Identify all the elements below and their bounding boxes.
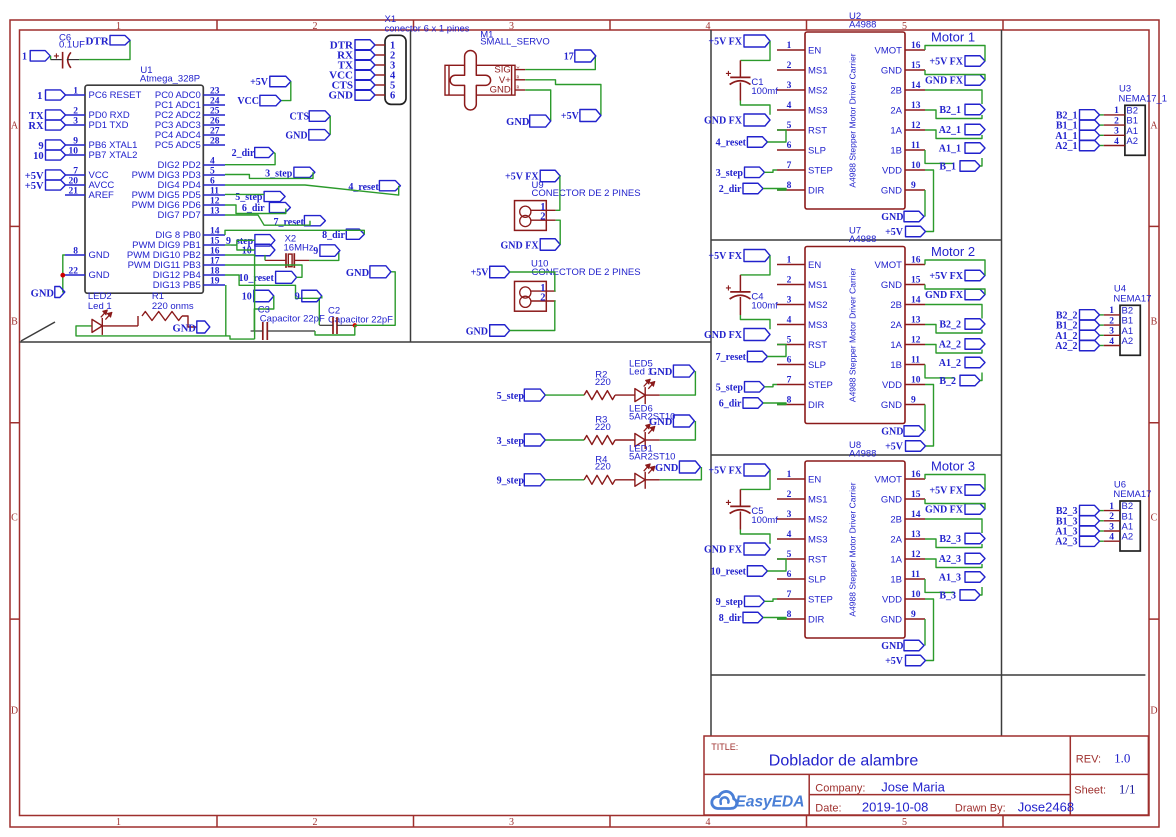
svg-text:4: 4 (787, 101, 792, 111)
svg-text:SLP: SLP (808, 146, 826, 157)
svg-text:13: 13 (210, 207, 220, 217)
svg-text:1.0: 1.0 (1114, 751, 1130, 766)
svg-text:GND FX: GND FX (925, 76, 964, 87)
svg-text:PB7 XTAL2: PB7 XTAL2 (89, 150, 138, 161)
svg-text:R: R (516, 75, 519, 80)
svg-text:GND: GND (881, 495, 902, 506)
svg-text:PC5 ADC5: PC5 ADC5 (155, 140, 201, 151)
svg-text:2: 2 (1114, 116, 1119, 126)
svg-text:DIG13 PB5: DIG13 PB5 (153, 280, 201, 291)
svg-text:4: 4 (787, 316, 792, 326)
svg-text:7: 7 (787, 161, 792, 171)
svg-text:A1_2: A1_2 (939, 358, 961, 369)
svg-text:DIG7 PD7: DIG7 PD7 (158, 210, 201, 221)
svg-text:8: 8 (73, 247, 78, 257)
svg-text:2B: 2B (890, 300, 902, 311)
svg-text:6: 6 (787, 141, 792, 151)
svg-text:14: 14 (210, 227, 220, 237)
svg-text:GND FX: GND FX (925, 505, 964, 516)
svg-text:CONECTOR DE 2 PINES: CONECTOR DE 2 PINES (532, 188, 641, 199)
svg-text:5: 5 (902, 817, 907, 828)
svg-text:22: 22 (69, 267, 79, 277)
svg-text:19: 19 (210, 277, 220, 287)
svg-text:2: 2 (540, 292, 545, 303)
svg-text:2: 2 (787, 276, 792, 286)
svg-text:A2: A2 (1122, 336, 1134, 347)
svg-text:9: 9 (911, 181, 916, 191)
svg-text:EN: EN (808, 46, 821, 57)
svg-text:3: 3 (1114, 127, 1119, 137)
svg-text:GND: GND (490, 85, 511, 96)
svg-text:Jose Maria: Jose Maria (881, 779, 945, 794)
svg-text:3: 3 (1109, 327, 1114, 337)
svg-text:2: 2 (787, 490, 792, 500)
svg-text:2: 2 (540, 212, 545, 223)
svg-text:11: 11 (911, 356, 920, 366)
svg-text:NEMA17: NEMA17 (1113, 489, 1151, 500)
svg-text:1B: 1B (890, 575, 902, 586)
svg-text:+5V: +5V (471, 268, 490, 279)
svg-text:9: 9 (911, 610, 916, 620)
svg-text:B_1: B_1 (939, 162, 956, 173)
svg-text:7: 7 (787, 590, 792, 600)
svg-text:MS1: MS1 (808, 66, 828, 77)
svg-text:2: 2 (73, 107, 78, 117)
svg-text:Capacitor 22pF: Capacitor 22pF (260, 313, 325, 324)
svg-text:MS3: MS3 (808, 106, 828, 117)
svg-text:MS2: MS2 (808, 300, 828, 311)
svg-text:D: D (11, 706, 18, 717)
svg-text:5: 5 (787, 336, 792, 346)
svg-text:+5V FX: +5V FX (505, 172, 539, 183)
svg-text:B_3: B_3 (939, 591, 956, 602)
svg-text:+5V: +5V (885, 442, 904, 453)
svg-text:VCC: VCC (237, 96, 259, 107)
svg-text:8_dir: 8_dir (719, 613, 742, 624)
svg-text:GND: GND (31, 289, 55, 300)
svg-text:10_reset: 10_reset (238, 273, 274, 284)
svg-text:PC6 RESET: PC6 RESET (89, 90, 142, 101)
svg-text:100mf: 100mf (751, 86, 778, 97)
svg-text:+5V: +5V (250, 77, 269, 88)
svg-text:1B: 1B (890, 360, 902, 371)
svg-text:SLP: SLP (808, 360, 826, 371)
svg-text:NEMA17_1: NEMA17_1 (1119, 93, 1168, 104)
svg-text:9: 9 (295, 292, 300, 303)
svg-text:220: 220 (595, 377, 611, 388)
svg-text:GND: GND (329, 90, 354, 102)
svg-text:GND: GND (649, 367, 673, 378)
svg-text:4: 4 (210, 157, 215, 167)
svg-text:Date:: Date: (815, 803, 841, 815)
svg-text:10: 10 (911, 161, 921, 171)
svg-text:27: 27 (210, 127, 220, 137)
svg-text:12: 12 (911, 550, 921, 560)
svg-text:1: 1 (73, 87, 78, 97)
svg-text:220 onms: 220 onms (152, 301, 194, 312)
svg-text:Company:: Company: (815, 782, 865, 794)
svg-text:VMOT: VMOT (875, 46, 903, 57)
svg-text:1/1: 1/1 (1119, 781, 1136, 796)
svg-text:VMOT: VMOT (875, 260, 903, 271)
svg-text:GND FX: GND FX (704, 545, 743, 556)
svg-text:28: 28 (210, 137, 220, 147)
svg-text:1A: 1A (890, 126, 902, 137)
svg-text:1A: 1A (890, 555, 902, 566)
svg-text:AREF: AREF (89, 190, 115, 201)
svg-text:A4988: A4988 (849, 234, 876, 245)
svg-text:VDD: VDD (882, 380, 902, 391)
svg-text:A2_3: A2_3 (1055, 537, 1077, 548)
svg-text:7: 7 (787, 376, 792, 386)
svg-text:4: 4 (706, 21, 711, 32)
svg-text:Motor 1: Motor 1 (931, 30, 975, 45)
svg-text:2: 2 (1109, 512, 1114, 522)
svg-text:NEMA17: NEMA17 (1113, 293, 1151, 304)
svg-text:6_dir: 6_dir (242, 203, 265, 214)
svg-text:VDD: VDD (882, 166, 902, 177)
svg-text:9: 9 (911, 396, 916, 406)
svg-text:3: 3 (787, 510, 792, 520)
svg-text:10: 10 (69, 147, 79, 157)
svg-text:5: 5 (210, 167, 215, 177)
svg-text:B: B (1151, 317, 1158, 328)
svg-text:MS2: MS2 (808, 515, 828, 526)
svg-text:3_step: 3_step (716, 168, 744, 179)
svg-text:MS1: MS1 (808, 280, 828, 291)
svg-text:8: 8 (787, 396, 792, 406)
svg-text:6: 6 (787, 356, 792, 366)
svg-text:3_step: 3_step (265, 168, 293, 179)
svg-text:+5V FX: +5V FX (708, 251, 742, 262)
svg-text:3: 3 (509, 817, 514, 828)
svg-text:GND: GND (881, 615, 902, 626)
svg-text:1: 1 (22, 52, 27, 63)
svg-text:5_step: 5_step (235, 192, 263, 203)
svg-text:SIG: SIG (494, 64, 510, 75)
svg-text:4: 4 (1109, 533, 1114, 543)
svg-text:A2_2: A2_2 (1055, 341, 1077, 352)
svg-text:Doblador de alambre: Doblador de alambre (769, 753, 919, 770)
svg-text:4: 4 (1114, 137, 1119, 147)
svg-text:20: 20 (69, 177, 79, 187)
svg-text:5: 5 (787, 121, 792, 131)
svg-text:16: 16 (911, 256, 921, 266)
svg-text:9: 9 (313, 246, 318, 257)
svg-text:6_dir: 6_dir (719, 399, 742, 410)
svg-text:2: 2 (313, 817, 318, 828)
svg-text:1: 1 (116, 817, 121, 828)
svg-text:GND FX: GND FX (704, 330, 743, 341)
svg-text:8_dir: 8_dir (322, 230, 345, 241)
svg-text:+: + (726, 284, 732, 295)
svg-text:100mf: 100mf (751, 515, 778, 526)
svg-text:14: 14 (911, 81, 921, 91)
svg-text:1: 1 (116, 21, 121, 32)
svg-text:A4988 Stepper Motor Driver Car: A4988 Stepper Motor Driver Carrier (848, 482, 858, 616)
svg-text:STEP: STEP (808, 595, 833, 606)
svg-text:SMALL_SERVO: SMALL_SERVO (480, 36, 550, 47)
svg-text:1: 1 (787, 470, 792, 480)
svg-text:A: A (1150, 121, 1158, 132)
svg-text:10: 10 (33, 151, 44, 162)
svg-text:12: 12 (911, 121, 921, 131)
svg-text:5_step: 5_step (716, 382, 744, 393)
svg-text:3_step: 3_step (497, 436, 525, 447)
svg-text:+5V FX: +5V FX (929, 271, 963, 282)
svg-text:C: C (11, 513, 18, 524)
svg-text:A1_3: A1_3 (939, 573, 961, 584)
svg-text:C: C (1151, 513, 1158, 524)
svg-text:3: 3 (73, 117, 78, 127)
svg-text:VDD: VDD (882, 595, 902, 606)
svg-text:4: 4 (706, 817, 711, 828)
svg-text:13: 13 (911, 530, 921, 540)
svg-text:CTS: CTS (290, 112, 310, 123)
svg-text:23: 23 (210, 87, 220, 97)
svg-text:4_reset: 4_reset (716, 138, 747, 149)
svg-text:3: 3 (787, 296, 792, 306)
svg-text:13: 13 (911, 101, 921, 111)
svg-text:+: + (54, 51, 60, 62)
svg-text:15: 15 (911, 490, 921, 500)
svg-text:DIR: DIR (808, 186, 825, 197)
svg-text:7_reset: 7_reset (274, 217, 305, 228)
svg-text:STEP: STEP (808, 166, 833, 177)
svg-text:REV:: REV: (1076, 754, 1101, 766)
svg-text:7: 7 (73, 167, 78, 177)
svg-text:6: 6 (390, 90, 395, 101)
svg-text:GND: GND (881, 280, 902, 291)
svg-text:5: 5 (902, 21, 907, 32)
svg-text:11: 11 (911, 570, 920, 580)
svg-text:DIR: DIR (808, 400, 825, 411)
svg-text:conector 6 x 1 pines: conector 6 x 1 pines (385, 24, 470, 35)
svg-text:1: 1 (787, 256, 792, 266)
svg-text:26: 26 (210, 117, 220, 127)
svg-text:15: 15 (911, 276, 921, 286)
svg-text:VMOT: VMOT (875, 475, 903, 486)
svg-text:1B: 1B (890, 146, 902, 157)
svg-text:GND FX: GND FX (704, 116, 743, 127)
svg-text:+5V FX: +5V FX (708, 37, 742, 48)
svg-text:GND FX: GND FX (501, 240, 540, 251)
svg-text:6: 6 (210, 177, 215, 187)
svg-text:A: A (11, 121, 19, 132)
svg-text:RST: RST (808, 126, 827, 137)
svg-text:DIR: DIR (808, 615, 825, 626)
svg-text:A2_2: A2_2 (939, 340, 961, 351)
svg-text:EN: EN (808, 260, 821, 271)
svg-text:10: 10 (911, 376, 921, 386)
svg-text:12: 12 (210, 197, 220, 207)
svg-text:7_reset: 7_reset (716, 352, 747, 363)
svg-text:MS3: MS3 (808, 320, 828, 331)
svg-text:MS3: MS3 (808, 535, 828, 546)
svg-text:+5V: +5V (885, 656, 904, 667)
svg-text:9: 9 (73, 137, 78, 147)
svg-text:2: 2 (1109, 316, 1114, 326)
svg-text:A2_1: A2_1 (1055, 141, 1077, 152)
svg-text:10: 10 (911, 590, 921, 600)
svg-text:4: 4 (1109, 337, 1114, 347)
svg-text:11: 11 (911, 141, 920, 151)
svg-text:+5V FX: +5V FX (929, 57, 963, 68)
svg-text:17: 17 (564, 52, 574, 63)
svg-text:A4988: A4988 (849, 449, 876, 460)
svg-text:GND: GND (881, 400, 902, 411)
svg-text:GND: GND (506, 117, 530, 128)
svg-text:PD1 TXD: PD1 TXD (89, 120, 129, 131)
svg-text:R: R (516, 84, 519, 89)
svg-text:GND: GND (881, 641, 903, 652)
svg-text:GND: GND (466, 326, 488, 337)
svg-text:2_dir: 2_dir (719, 184, 742, 195)
svg-text:A2_3: A2_3 (939, 554, 961, 565)
svg-text:+5V FX: +5V FX (929, 486, 963, 497)
svg-text:A4988: A4988 (849, 20, 876, 31)
svg-text:GND FX: GND FX (925, 290, 964, 301)
svg-text:6: 6 (787, 570, 792, 580)
svg-text:0.1UF: 0.1UF (59, 40, 85, 51)
svg-text:24: 24 (210, 97, 220, 107)
svg-text:MS2: MS2 (808, 86, 828, 97)
svg-text:Sheet:: Sheet: (1074, 784, 1106, 796)
svg-text:EN: EN (808, 475, 821, 486)
svg-text:EasyEDA: EasyEDA (736, 794, 805, 811)
svg-text:8: 8 (787, 610, 792, 620)
svg-text:16MHz: 16MHz (284, 242, 314, 253)
svg-text:STEP: STEP (808, 380, 833, 391)
svg-text:MS1: MS1 (808, 495, 828, 506)
svg-text:5_step: 5_step (497, 391, 525, 402)
svg-text:17: 17 (210, 257, 220, 267)
svg-text:GND: GND (89, 270, 110, 281)
svg-text:8: 8 (787, 181, 792, 191)
svg-text:GND: GND (881, 186, 902, 197)
svg-text:16: 16 (210, 247, 220, 257)
svg-text:1: 1 (1114, 106, 1119, 116)
svg-text:GND: GND (285, 130, 307, 141)
svg-text:Jose2468: Jose2468 (1018, 800, 1074, 815)
svg-text:220: 220 (595, 422, 611, 433)
svg-text:B2_1: B2_1 (939, 105, 961, 116)
svg-text:A1_1: A1_1 (939, 144, 961, 155)
svg-text:4: 4 (787, 530, 792, 540)
svg-text:14: 14 (911, 296, 921, 306)
svg-text:2B: 2B (890, 86, 902, 97)
svg-text:GND: GND (173, 323, 197, 334)
svg-text:GND: GND (881, 212, 903, 223)
svg-text:2: 2 (787, 61, 792, 71)
svg-text:+5V: +5V (885, 227, 904, 238)
svg-text:10_reset: 10_reset (711, 567, 747, 578)
svg-text:3: 3 (1109, 522, 1114, 532)
svg-text:18: 18 (210, 267, 220, 277)
svg-text:SLP: SLP (808, 575, 826, 586)
svg-text:9_step: 9_step (497, 476, 525, 487)
svg-text:DTR: DTR (85, 36, 109, 48)
svg-text:2B: 2B (890, 515, 902, 526)
svg-text:2A: 2A (890, 535, 902, 546)
svg-text:+: + (726, 498, 732, 509)
svg-text:21: 21 (69, 187, 79, 197)
svg-text:A4988 Stepper Motor Driver Car: A4988 Stepper Motor Driver Carrier (848, 268, 858, 402)
svg-text:Atmega_328P: Atmega_328P (140, 74, 200, 85)
svg-text:3: 3 (509, 21, 514, 32)
svg-text:1A: 1A (890, 340, 902, 351)
svg-text:220: 220 (595, 462, 611, 473)
svg-text:10: 10 (242, 292, 252, 303)
svg-text:RST: RST (808, 340, 827, 351)
svg-text:15: 15 (210, 237, 220, 247)
svg-text:2: 2 (313, 21, 318, 32)
svg-text:A2: A2 (1126, 136, 1138, 147)
svg-text:3: 3 (787, 81, 792, 91)
svg-text:+5V: +5V (25, 181, 44, 192)
svg-text:Motor 2: Motor 2 (931, 244, 975, 259)
svg-text:5: 5 (787, 550, 792, 560)
svg-text:2A: 2A (890, 320, 902, 331)
svg-text:+: + (726, 69, 732, 80)
svg-text:+5V: +5V (561, 111, 580, 122)
svg-text:9_step: 9_step (716, 597, 744, 608)
svg-text:13: 13 (911, 316, 921, 326)
svg-text:Led 1: Led 1 (88, 301, 112, 312)
svg-text:GND: GND (89, 250, 110, 261)
svg-text:B2_3: B2_3 (939, 534, 961, 545)
svg-text:GND: GND (655, 463, 679, 474)
svg-text:A2_1: A2_1 (939, 125, 961, 136)
svg-text:16: 16 (911, 470, 921, 480)
svg-text:15: 15 (911, 61, 921, 71)
svg-text:GND: GND (649, 417, 673, 428)
svg-text:1: 1 (37, 91, 42, 102)
svg-text:2_dir: 2_dir (232, 148, 255, 159)
svg-text:12: 12 (911, 336, 921, 346)
svg-text:2019-10-08: 2019-10-08 (862, 800, 929, 815)
svg-text:Drawn By:: Drawn By: (955, 803, 1006, 815)
svg-text:1: 1 (787, 41, 792, 51)
svg-text:14: 14 (911, 510, 921, 520)
svg-text:RST: RST (808, 555, 827, 566)
svg-text:16: 16 (911, 41, 921, 51)
svg-text:B: B (11, 317, 18, 328)
svg-text:A2: A2 (1122, 532, 1134, 543)
svg-text:5AR2ST10: 5AR2ST10 (629, 451, 675, 462)
svg-text:TITLE:: TITLE: (711, 742, 738, 752)
svg-text:11: 11 (210, 187, 219, 197)
svg-text:25: 25 (210, 107, 220, 117)
svg-text:2A: 2A (890, 106, 902, 117)
svg-text:GND: GND (346, 268, 370, 279)
svg-text:B_2: B_2 (939, 376, 956, 387)
svg-text:RX: RX (28, 121, 44, 132)
svg-text:A4988 Stepper Motor Driver Car: A4988 Stepper Motor Driver Carrier (848, 53, 858, 187)
svg-text:+5V FX: +5V FX (708, 466, 742, 477)
svg-text:D: D (1150, 706, 1157, 717)
svg-text:GND: GND (881, 66, 902, 77)
svg-text:GND: GND (881, 427, 903, 438)
svg-text:1: 1 (1109, 502, 1114, 512)
svg-text:Motor 3: Motor 3 (931, 459, 975, 474)
svg-text:1: 1 (1109, 306, 1114, 316)
svg-text:100mf: 100mf (751, 301, 778, 312)
svg-text:B2_2: B2_2 (939, 320, 961, 331)
